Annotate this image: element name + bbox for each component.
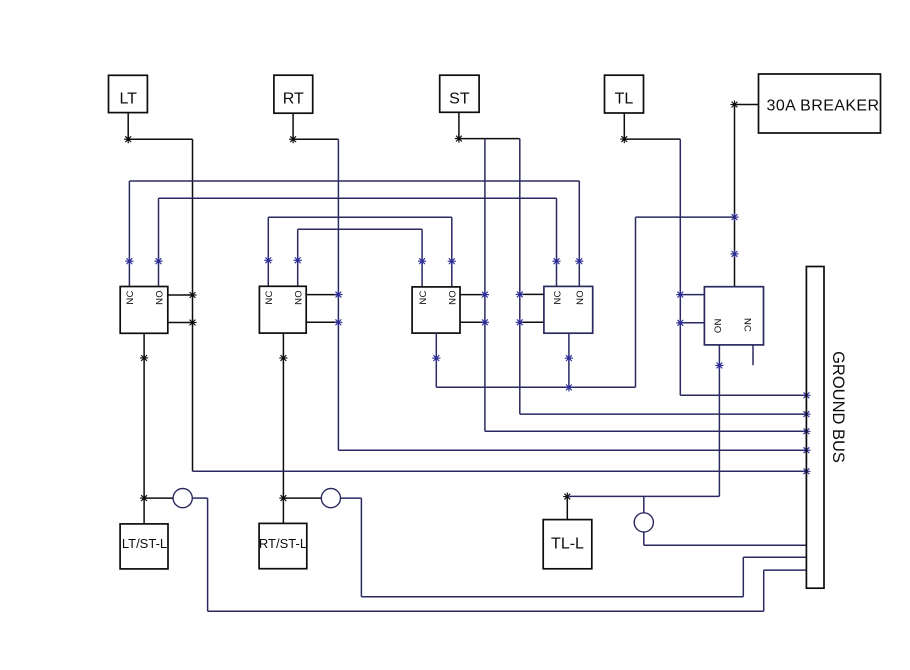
ground bus bar <box>806 267 824 589</box>
node K2 NO pin <box>294 256 302 264</box>
node K1 contact upper <box>188 291 196 299</box>
wire lamp3 return to bus <box>644 544 807 546</box>
wire LT vertical to ground-bus feed <box>192 139 194 471</box>
wire lamp2 return drop <box>360 498 362 597</box>
node K1 common joint <box>140 354 148 362</box>
node lamp3 junction <box>563 493 571 501</box>
wire lamp2 return riser <box>742 557 744 597</box>
lamp lamp2 bulb <box>321 489 340 508</box>
wire RT vertical to ground-bus feed <box>337 139 339 450</box>
svg-text:NO: NO <box>712 319 723 334</box>
node K3 NO pin <box>448 257 456 265</box>
svg-text:NC: NC <box>125 290 136 304</box>
node K1 contact lower <box>188 318 196 326</box>
wire lamp1 return bottom run <box>208 610 764 612</box>
svg-text:NC: NC <box>418 290 429 304</box>
node K5 NO joint <box>715 361 723 369</box>
node K4 common joint <box>565 354 573 362</box>
wire TL node to corner <box>624 138 680 140</box>
node RT output <box>289 135 297 143</box>
node breaker feed junction upper <box>730 213 738 221</box>
svg-text:NC: NC <box>552 290 563 304</box>
wire K1 common down to lamp node <box>143 333 145 498</box>
wire RT node to corner <box>293 138 338 140</box>
wire net A drop to relay K4 NO pin <box>578 181 580 286</box>
wire breaker rail drop x635 <box>635 217 637 387</box>
node LT output <box>124 135 132 143</box>
switch TL <box>605 75 644 113</box>
wire lamp1 return to bus <box>764 569 807 571</box>
wire K5 coil stub lower <box>680 322 704 324</box>
switch RT <box>274 75 313 113</box>
wire lamp3 top stub <box>643 496 645 512</box>
wire K2 common down to lamp node <box>282 333 284 498</box>
svg-text:NC: NC <box>264 290 275 304</box>
lamp lamp3 bulb <box>634 513 653 532</box>
svg-text:LT/ST-L: LT/ST-L <box>122 536 167 551</box>
node K4 NC pin <box>552 257 560 265</box>
switch ST <box>440 75 479 112</box>
node K2 contact lower <box>334 318 342 326</box>
wire RT stub to node <box>292 113 294 139</box>
wire net C rail y217 (K2 NC to K3 NO) <box>268 216 452 218</box>
wire ST branch vertical via relay K3 contacts <box>484 139 486 432</box>
box LT/ST-L <box>120 524 168 569</box>
node ST output <box>455 135 463 143</box>
node K1 NO pin <box>154 257 162 265</box>
svg-text:TL: TL <box>615 91 634 108</box>
wire K3 contact stub upper <box>460 294 485 296</box>
wire TL vertical via relay K5 contacts to bus feed <box>679 139 681 395</box>
node K3 contact upper <box>481 291 489 299</box>
wire lamp1 left lead <box>144 497 173 499</box>
svg-text:LT: LT <box>119 91 137 108</box>
wire lamp1 return riser <box>763 570 765 611</box>
wire lamp2 return bottom run <box>361 596 743 598</box>
wire bus feed y450 from K2 <box>338 449 806 451</box>
node K4 coil upper <box>516 290 524 298</box>
node bus y450 <box>802 446 810 454</box>
svg-text:NO: NO <box>154 290 165 305</box>
relay K3 <box>412 287 460 333</box>
wire K4 coil stub lower <box>520 321 544 323</box>
wire net C drop to relay K3 NO pin <box>451 217 453 287</box>
wire net D drop to relay K3 NC pin <box>421 229 423 287</box>
wire net B drop to relay K1 NO pin <box>158 198 160 286</box>
wire K4 coil stub upper <box>520 293 544 295</box>
svg-text:NO: NO <box>448 290 459 305</box>
wire breaker rail y217 right segment <box>636 216 735 218</box>
wire ST node to branch corners <box>459 138 520 140</box>
wire RT/ST-L stub <box>282 498 284 523</box>
wire TL-L stub <box>566 497 568 520</box>
svg-text:30A BREAKER: 30A BREAKER <box>767 98 880 115</box>
wire LT stub to node <box>127 113 129 140</box>
wire net A top rail y181 (K1 NC to K4 NO) <box>129 180 579 182</box>
relay K2 <box>259 286 306 333</box>
wire ST branch vertical via relay K4 coil side <box>519 139 521 415</box>
svg-text:GROUND BUS: GROUND BUS <box>829 351 847 463</box>
node K2 common joint <box>279 354 287 362</box>
wire ST stub to node <box>458 112 460 138</box>
node K2 contact upper <box>334 291 342 299</box>
wire K1 contact stub lower <box>168 322 193 324</box>
node lamp2 junction <box>279 494 287 502</box>
node bus y395 <box>802 391 810 399</box>
node K3 NC pin <box>418 257 426 265</box>
svg-text:TL-L: TL-L <box>551 536 584 553</box>
node bus y414 <box>802 410 810 418</box>
node breaker output <box>730 100 738 108</box>
relay K5 <box>704 287 763 345</box>
wire lamp3 bottom lead <box>643 532 645 545</box>
node bus y431 <box>802 427 810 435</box>
wire TL-L rail y496 <box>567 495 719 497</box>
wire net B drop to relay K4 NC pin <box>556 198 558 286</box>
wire K3 contact stub lower <box>460 321 485 323</box>
wire K5 coil stub upper <box>680 294 704 296</box>
wire net A drop to relay K1 NC pin <box>128 181 130 287</box>
node lamp1 junction <box>140 494 148 502</box>
wire lamp2 return to bus <box>743 556 806 558</box>
wire lamp2 right lead <box>341 497 362 499</box>
breaker 30A BREAKER <box>759 74 881 133</box>
wire bus feed y395 from K5 <box>680 394 806 396</box>
wire net D rail y229 (K2 NO to K3 NC) <box>298 228 422 230</box>
wire bus feed y431 from K3 <box>485 430 807 432</box>
svg-text:NC: NC <box>741 318 752 332</box>
wire net D drop to relay K2 NO pin <box>297 229 299 286</box>
wire K4 common down to rail y387 <box>568 333 570 387</box>
relay K1 <box>120 287 168 334</box>
wire bus feed y471 from K1 <box>193 470 807 472</box>
node K4 NO pin <box>575 257 583 265</box>
svg-text:NO: NO <box>575 290 586 305</box>
wire K2 contact stub upper <box>306 294 338 296</box>
node K4 coil lower <box>516 318 524 326</box>
wire LT/ST-L stub <box>143 498 145 524</box>
wire LT node to corner <box>128 138 192 140</box>
box RT/ST-L <box>259 523 307 568</box>
node K3 common joint <box>432 354 440 362</box>
box TL-L <box>543 520 592 569</box>
wire relay K3/K4 bottom rail y387 <box>436 386 635 388</box>
relay K4 <box>544 286 593 333</box>
wire breaker stub to node <box>735 104 759 106</box>
wire net B rail y198 (K1 NO to K4 NC) <box>159 197 557 199</box>
wire K1 contact stub upper <box>168 294 193 296</box>
node bus y471 <box>802 467 810 475</box>
wire K3 common down to rail y387 <box>435 333 437 387</box>
svg-text:ST: ST <box>449 91 470 108</box>
svg-text:NO: NO <box>294 290 305 305</box>
node K1 NC pin <box>125 257 133 265</box>
node breaker feed junction lower <box>730 250 738 258</box>
wire bus feed y414 from K4 <box>520 413 807 415</box>
node K3 contact lower <box>481 318 489 326</box>
switch LT <box>109 75 148 112</box>
wire breaker vertical to relay K5 coil <box>734 105 736 287</box>
wire K2 contact stub lower <box>306 321 338 323</box>
node K4 rail junction <box>565 383 573 391</box>
wire lamp1 return drop <box>207 498 209 611</box>
wire lamp1 right lead <box>192 497 207 499</box>
node K5 coil upper <box>676 291 684 299</box>
wire K5 NC pin stub <box>752 345 754 365</box>
wire K5 NO pin down to lamp TL-L rail <box>718 345 720 497</box>
node TL output <box>620 135 628 143</box>
wire TL stub to node <box>623 113 625 139</box>
lamp lamp1 bulb <box>173 489 192 508</box>
node K2 NC pin <box>264 256 272 264</box>
svg-text:RT/ST-L: RT/ST-L <box>259 536 307 551</box>
svg-text:RT: RT <box>283 91 304 108</box>
node K5 coil lower <box>676 319 684 327</box>
wire net C drop to relay K2 NC pin <box>267 217 269 286</box>
wire lamp2 left lead <box>283 497 321 499</box>
